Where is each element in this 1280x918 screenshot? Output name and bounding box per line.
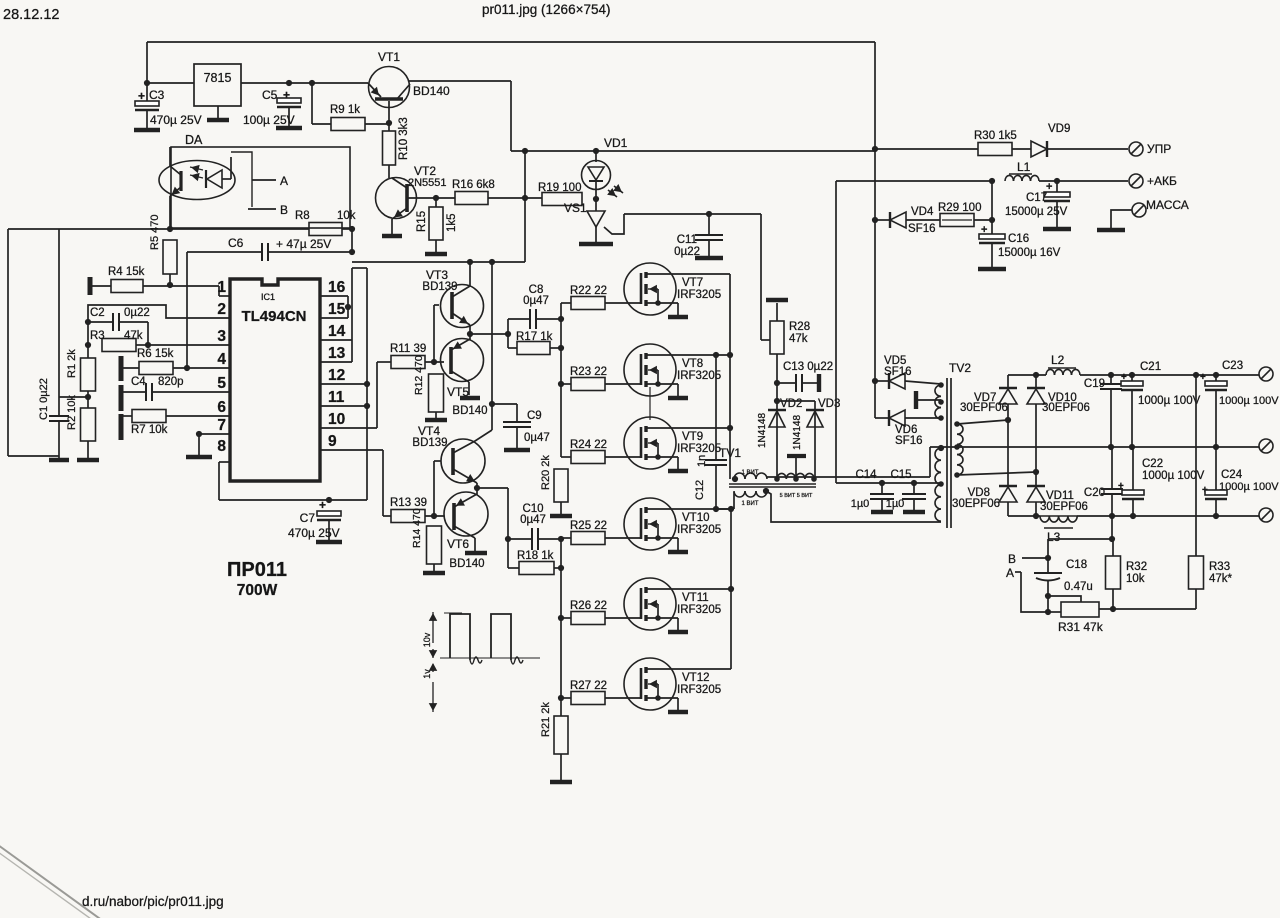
svg-text:B: B: [280, 203, 288, 217]
wire +AKB row: [836, 180, 992, 182]
wire drain bus group2: [730, 509, 732, 669]
svg-text:R3: R3: [90, 330, 105, 342]
svg-text:1N4148: 1N4148: [792, 415, 803, 450]
ground under R14: [423, 571, 445, 576]
wire TV1 secondary center tap plate: [795, 457, 797, 479]
diode VD3: [814, 412, 816, 477]
TV2 primary aux plate: [914, 391, 918, 409]
TV1 primary winding top: [734, 473, 745, 479]
svg-text:C16: C16: [1008, 233, 1029, 245]
svg-text:R14 470: R14 470: [411, 508, 423, 548]
svg-text:1000µ 100V: 1000µ 100V: [1219, 395, 1279, 407]
resistor R27: [561, 697, 571, 699]
svg-text:1: 1: [217, 279, 226, 296]
svg-text:IRF3205: IRF3205: [677, 604, 721, 616]
terminal output minus: [1259, 508, 1273, 522]
resistor R31 potentiometer: [1048, 596, 1081, 602]
ground under C14: [871, 510, 893, 515]
svg-text:1µ0: 1µ0: [851, 498, 870, 510]
svg-text:VD9: VD9: [1048, 123, 1070, 135]
svg-text:+ 47µ 25V: + 47µ 25V: [276, 237, 331, 251]
wire pin7 ground: [199, 433, 230, 435]
waveform pulses: [450, 614, 470, 660]
resistor R15: [435, 198, 437, 207]
svg-text:VT10: VT10: [682, 512, 710, 524]
svg-text:R13 39: R13 39: [390, 497, 427, 509]
wire VT2 base row: [407, 197, 455, 199]
terminal output common: [1259, 439, 1273, 453]
wire VD1 row: [511, 150, 875, 152]
svg-text:C17: C17: [1026, 192, 1047, 204]
TV1 winding bottom: [734, 491, 745, 497]
transistor VT12: [624, 658, 676, 710]
svg-text:470µ 25V: 470µ 25V: [150, 113, 202, 127]
svg-text:SF16: SF16: [884, 366, 912, 378]
svg-text:10: 10: [328, 411, 345, 428]
ground under VT2: [382, 234, 402, 239]
capacitor C12: [715, 355, 717, 460]
ground under C15: [903, 510, 925, 515]
svg-text:VT12: VT12: [682, 672, 710, 684]
ground under R20: [550, 514, 572, 519]
wire -V bottom rail: [1008, 515, 1040, 517]
svg-text:1k5: 1k5: [446, 213, 458, 232]
wire T2b row: [957, 472, 1036, 475]
waveform baseline: [440, 657, 540, 659]
resistor R21: [554, 716, 568, 754]
svg-text:1000µ 100V: 1000µ 100V: [1138, 395, 1201, 407]
ground under VT12: [668, 710, 688, 715]
wire 7815 output row: [241, 82, 368, 84]
svg-text:0µ47: 0µ47: [524, 432, 550, 444]
svg-text:7815: 7815: [204, 71, 232, 85]
voltage regulator 7815: [194, 64, 241, 106]
wire R30 row: [875, 148, 978, 150]
wire VT1 collector to VD1 line: [408, 80, 511, 82]
svg-text:R6 15k: R6 15k: [137, 348, 174, 360]
TV1 secondary winding 5+5: [777, 473, 786, 479]
ground under C7: [316, 540, 342, 545]
svg-text:R25 22: R25 22: [570, 520, 607, 532]
resistor R14: [427, 526, 442, 564]
diode VD5: [872, 378, 878, 384]
diode VD2: [776, 412, 778, 477]
diode VD10: [1035, 375, 1037, 388]
svg-text:A: A: [1006, 566, 1014, 580]
transistor VT8: [624, 344, 676, 396]
wire left border loop: [7, 229, 9, 456]
svg-text:TV1: TV1: [719, 446, 741, 460]
resistor R7: [119, 414, 124, 440]
wire VT1 base down: [388, 101, 390, 131]
ground under C11: [695, 256, 723, 261]
DA phototransistor: [179, 171, 182, 191]
svg-text:1000µ 100V: 1000µ 100V: [1219, 481, 1279, 493]
svg-text:C6: C6: [228, 236, 244, 250]
transistor VT10: [624, 498, 676, 550]
waveform sketch axis: [432, 612, 434, 643]
ground under VS1: [579, 242, 613, 247]
wire C11 node to R28: [760, 214, 762, 340]
svg-text:470µ 25V: 470µ 25V: [288, 526, 340, 540]
op-amp U1 IC1 TL494CN: [230, 279, 320, 481]
wire 7815 input row: [147, 82, 194, 84]
ground under C9: [504, 448, 530, 453]
wire driver A output: [470, 333, 508, 335]
svg-text:IRF3205: IRF3205: [677, 684, 721, 696]
svg-text:R23 22: R23 22: [570, 366, 607, 378]
wire to pin1: [218, 286, 220, 296]
svg-text:МАССА: МАССА: [1146, 198, 1189, 212]
svg-text:1µ0: 1µ0: [886, 498, 905, 510]
capacitor C1: [59, 396, 88, 398]
svg-text:R20 2k: R20 2k: [540, 455, 552, 490]
capacitor C11: [708, 214, 710, 235]
node A: [252, 179, 276, 181]
svg-text:R17 1k: R17 1k: [516, 331, 553, 343]
svg-text:L2: L2: [1051, 353, 1065, 367]
wire pin12 pin11 to C6 riser: [320, 383, 367, 385]
svg-text:9: 9: [328, 433, 337, 450]
ground under VT7: [668, 315, 688, 320]
transistor VT11: [624, 578, 676, 630]
svg-text:C24: C24: [1221, 469, 1243, 481]
svg-text:R1 2k: R1 2k: [66, 349, 78, 378]
svg-text:R18 1k: R18 1k: [517, 550, 554, 562]
wire x875 column: [874, 151, 876, 381]
resistor R8: [309, 223, 342, 236]
wire gate bus A: [560, 303, 562, 457]
svg-text:30EPF06: 30EPF06: [952, 498, 1000, 510]
transistor VT2: [376, 178, 417, 219]
svg-text:R9 1k: R9 1k: [330, 104, 360, 116]
transistor VT7: [624, 263, 676, 315]
svg-text:C2: C2: [90, 307, 105, 319]
ground under C1: [49, 458, 69, 463]
svg-text:d.ru/nabor/pic/pr011.jpg: d.ru/nabor/pic/pr011.jpg: [82, 894, 224, 909]
transistor VT9: [624, 417, 676, 469]
optocoupler DA box: [171, 147, 350, 228]
svg-text:C3: C3: [149, 88, 165, 102]
svg-text:R31 47k: R31 47k: [1058, 620, 1104, 634]
DA led: [207, 170, 222, 188]
svg-text:VD4: VD4: [911, 206, 934, 218]
svg-text:IRF3205: IRF3205: [677, 289, 721, 301]
svg-text:SF16: SF16: [908, 223, 936, 235]
svg-text:VT4: VT4: [418, 424, 440, 438]
svg-text:7: 7: [217, 417, 226, 434]
resistor R29: [940, 214, 974, 227]
svg-text:R32: R32: [1126, 561, 1147, 573]
wire +V top rail: [1008, 374, 1046, 376]
resistor R26: [561, 617, 571, 619]
svg-text:15000µ 25V: 15000µ 25V: [1005, 206, 1068, 218]
svg-text:ПР011: ПР011: [227, 559, 287, 581]
svg-text:IRF3205: IRF3205: [677, 370, 721, 382]
ground under R12: [425, 418, 447, 423]
diode VD6: [874, 381, 876, 418]
svg-text:R33: R33: [1209, 561, 1230, 573]
svg-text:C21: C21: [1140, 361, 1161, 373]
svg-text:TV2: TV2: [949, 361, 971, 375]
svg-text:IC1: IC1: [261, 292, 275, 302]
svg-text:10k: 10k: [337, 210, 356, 222]
wire +15V driver rail: [352, 261, 525, 263]
svg-text:C5: C5: [262, 88, 278, 102]
resistor R6: [119, 356, 124, 381]
DA light arrows: [190, 167, 203, 170]
ground under 7815: [207, 118, 229, 123]
svg-text:VT9: VT9: [682, 431, 703, 443]
svg-text:C1 0µ22: C1 0µ22: [38, 378, 50, 420]
diode VD8: [1007, 420, 1009, 486]
terminal МАССА: [1132, 203, 1146, 217]
svg-text:12: 12: [328, 367, 345, 384]
svg-text:R15: R15: [416, 211, 428, 232]
terminal УПР: [1129, 142, 1143, 156]
svg-text:C15: C15: [890, 469, 911, 481]
svg-text:C22: C22: [1142, 458, 1163, 470]
svg-text:5: 5: [217, 375, 226, 392]
wire pin9 to R13 riser: [320, 449, 383, 451]
inductor L3: [1040, 516, 1049, 522]
svg-text:1 ВИТ: 1 ВИТ: [742, 470, 759, 476]
resistor R9: [311, 83, 313, 124]
svg-text:VD1: VD1: [604, 136, 628, 150]
transistor VT6: [444, 492, 488, 536]
TV2 winding aux left: [935, 385, 941, 396]
ground under VT5: [460, 396, 480, 401]
svg-text:15: 15: [328, 301, 346, 318]
svg-text:R16 6k8: R16 6k8: [452, 179, 495, 191]
wire top +12V rail: [147, 41, 875, 43]
resistor R18: [508, 567, 519, 569]
terminal output plus: [1259, 367, 1273, 381]
ground under R15: [425, 252, 447, 257]
resistor R23: [561, 383, 571, 385]
DA inner box: [231, 152, 252, 207]
TV2 winding secondary right: [957, 424, 963, 434]
capacitor C18: [1047, 558, 1049, 573]
wire pin2 loop: [88, 305, 230, 358]
svg-text:C18: C18: [1066, 559, 1087, 571]
svg-text:10k: 10k: [1126, 573, 1145, 585]
svg-text:R26 22: R26 22: [570, 600, 607, 612]
resistor R2: [81, 408, 96, 441]
ground under C17: [1043, 227, 1071, 232]
wire L3 feedback tap: [1111, 516, 1113, 539]
svg-text:pr011.jpg (1266×754): pr011.jpg (1266×754): [482, 2, 610, 17]
TV2 core: [946, 378, 948, 528]
svg-text:14: 14: [328, 323, 346, 340]
svg-text:820p: 820p: [158, 376, 184, 388]
svg-text:1N4148: 1N4148: [757, 413, 768, 448]
wire drain bus group1: [729, 274, 731, 479]
svg-text:C11: C11: [677, 234, 697, 246]
capacitor C4: [119, 385, 124, 411]
svg-text:BD140: BD140: [452, 405, 487, 417]
capacitor C2: [88, 321, 113, 323]
diode VD4: [872, 217, 878, 223]
svg-text:B: B: [1008, 552, 1016, 566]
svg-text:VD2: VD2: [780, 398, 802, 410]
svg-text:VS1: VS1: [564, 201, 587, 215]
svg-text:R5 470: R5 470: [149, 215, 161, 250]
resistor R20: [554, 469, 568, 502]
svg-text:C9: C9: [527, 410, 542, 422]
svg-text:1v: 1v: [422, 669, 432, 679]
svg-text:47k*: 47k*: [1209, 573, 1233, 585]
svg-text:DA: DA: [185, 133, 203, 147]
resistor R11: [391, 356, 425, 369]
ground under VT6: [465, 551, 487, 556]
wire driver B output: [477, 487, 508, 489]
svg-text:BD140: BD140: [413, 84, 450, 98]
wire pins 16/15 bracket: [320, 295, 348, 297]
ground under R21: [550, 780, 572, 785]
svg-text:1 ВИТ: 1 ВИТ: [742, 501, 759, 507]
svg-text:47k: 47k: [124, 330, 143, 342]
svg-text:УПР: УПР: [1147, 142, 1171, 156]
resistor R10: [383, 131, 396, 165]
svg-text:700W: 700W: [237, 582, 278, 599]
resistor R13: [391, 510, 425, 523]
resistor R32: [1112, 539, 1114, 556]
svg-text:C14: C14: [855, 469, 877, 481]
svg-text:C13 0µ22: C13 0µ22: [783, 361, 833, 373]
svg-text:R30 1k5: R30 1k5: [974, 130, 1017, 142]
svg-text:30EPF06: 30EPF06: [1040, 501, 1088, 513]
svg-text:R10 3k3: R10 3k3: [398, 117, 410, 160]
ground under R2: [77, 458, 99, 463]
scan page edge diagonal: [0, 845, 103, 918]
wire TV1 bottom winding feedback: [766, 491, 941, 522]
svg-text:VT8: VT8: [682, 358, 703, 370]
svg-text:BD139: BD139: [412, 437, 447, 449]
resistor R24: [561, 456, 571, 458]
svg-text:4: 4: [217, 351, 226, 368]
node B: [248, 208, 276, 210]
svg-text:13: 13: [328, 345, 346, 362]
wire VT8 source stub: [649, 387, 651, 420]
svg-text:R4 15k: R4 15k: [108, 266, 145, 278]
svg-text:VT11: VT11: [682, 592, 709, 604]
wire mid output row: [930, 446, 1259, 448]
ground under C5: [276, 126, 302, 131]
svg-text:1n: 1n: [696, 455, 708, 467]
svg-text:L3: L3: [1047, 530, 1061, 544]
svg-text:+АКБ: +АКБ: [1147, 174, 1177, 188]
svg-text:2N5551: 2N5551: [408, 177, 447, 189]
svg-text:8: 8: [217, 438, 226, 455]
transistor VT1: [369, 67, 410, 108]
svg-text:C12: C12: [694, 480, 706, 500]
svg-text:R21 2k: R21 2k: [540, 702, 552, 737]
svg-text:C4: C4: [131, 376, 146, 388]
svg-text:3: 3: [217, 328, 226, 345]
resistor R16: [455, 192, 488, 205]
ground under МАССА: [1097, 228, 1125, 233]
svg-text:R27 22: R27 22: [570, 680, 607, 692]
svg-text:R2 10k: R2 10k: [66, 395, 78, 430]
resistor R33: [1195, 375, 1197, 556]
svg-text:100µ 25V: 100µ 25V: [243, 113, 295, 127]
svg-text:0.47u: 0.47u: [1064, 581, 1093, 593]
svg-text:2: 2: [217, 301, 226, 318]
svg-text:L1: L1: [1017, 160, 1031, 174]
svg-text:VT7: VT7: [682, 277, 703, 289]
diode VD11: [1035, 472, 1037, 486]
ground above R28 inverted: [766, 298, 788, 303]
svg-text:6: 6: [217, 399, 226, 416]
resistor R25: [561, 537, 571, 539]
wire TV1 top winding to TV2: [767, 476, 930, 478]
TV1 core: [729, 483, 816, 485]
diode VD9: [1031, 141, 1047, 157]
wire VD2 VD3 cathodes: [777, 400, 815, 402]
led VD1: [595, 151, 597, 162]
svg-text:16: 16: [328, 279, 346, 296]
svg-text:47k: 47k: [789, 333, 808, 345]
resistor R4: [88, 277, 93, 295]
resistor R5: [163, 240, 177, 274]
ground under VT11: [668, 630, 688, 635]
svg-text:R22 22: R22 22: [570, 285, 607, 297]
wire gate bus B: [560, 538, 562, 716]
svg-text:28.12.12: 28.12.12: [3, 7, 59, 23]
svg-text:30EPF06: 30EPF06: [960, 402, 1008, 414]
svg-text:0µ47: 0µ47: [520, 514, 546, 526]
capacitor C17: [1056, 181, 1058, 192]
wire pin3 row: [148, 344, 230, 346]
svg-text:VT6: VT6: [447, 537, 469, 551]
capacitor C6: [187, 251, 262, 253]
resistor R30: [978, 143, 1012, 156]
ground under VT8: [668, 396, 688, 401]
svg-text:15000µ 16V: 15000µ 16V: [998, 247, 1061, 259]
ground under VT9: [668, 469, 688, 474]
svg-text:R11 39: R11 39: [390, 343, 426, 355]
wire pin14: [320, 339, 352, 341]
svg-text:VD3: VD3: [818, 398, 840, 410]
ground under VT10: [668, 550, 688, 555]
terminal +АКБ: [1129, 174, 1143, 188]
svg-text:VT3: VT3: [426, 268, 448, 282]
resistor R12: [429, 374, 444, 412]
svg-text:0µ47: 0µ47: [523, 295, 549, 307]
svg-text:11: 11: [328, 389, 345, 406]
svg-text:R28: R28: [789, 321, 810, 333]
svg-text:C23: C23: [1222, 360, 1243, 372]
TV2 winding primary left: [935, 448, 941, 460]
svg-text:SF16: SF16: [895, 435, 923, 447]
svg-text:C7: C7: [300, 511, 316, 525]
resistor R3: [102, 339, 136, 352]
capacitor C13: [776, 383, 778, 401]
svg-text:R8: R8: [295, 210, 310, 222]
resistor R1: [81, 358, 96, 391]
capacitor C9: [489, 401, 495, 407]
svg-text:5 ВИТ 5 ВИТ: 5 ВИТ 5 ВИТ: [780, 493, 813, 499]
resistor R22: [561, 302, 571, 304]
resistor R17: [508, 347, 517, 349]
svg-text:TL494CN: TL494CN: [241, 308, 306, 325]
wire VS1 gate row to C11: [624, 213, 761, 215]
ground under C3: [134, 128, 160, 133]
svg-text:10v: 10v: [422, 632, 432, 647]
resistor R28: [776, 354, 778, 383]
svg-text:R7 10k: R7 10k: [131, 424, 168, 436]
